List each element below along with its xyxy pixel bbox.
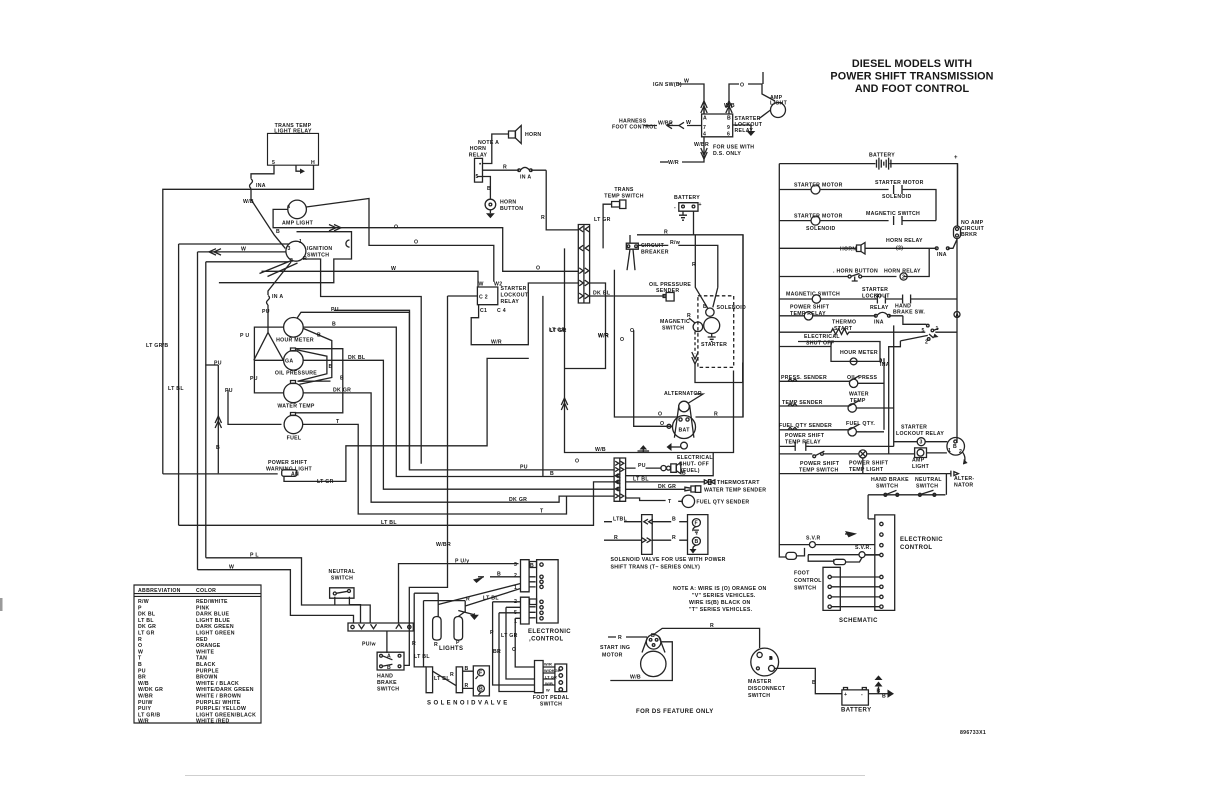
svg-text:DK GR: DK GR	[509, 497, 527, 503]
svg-text:POWER SHIFT: POWER SHIFT	[785, 433, 825, 439]
arrow symbol left of alternator	[667, 443, 672, 451]
svg-text:C 4: C 4	[497, 308, 506, 314]
wire W/B from fuse diagonal to ignition	[243, 189, 285, 249]
svg-text:W: W	[684, 79, 689, 85]
svg-text:PU/w: PU/w	[362, 642, 377, 648]
svg-text:LIGHT BLUE: LIGHT BLUE	[196, 618, 230, 624]
svg-text:B: B	[530, 563, 534, 569]
svg-text:LOCKOUT: LOCKOUT	[501, 293, 529, 299]
svg-text:W: W	[686, 120, 691, 126]
svg-text:BRAKE SW.: BRAKE SW.	[893, 310, 925, 316]
foot control switch box	[794, 567, 880, 610]
ignition switch	[286, 239, 333, 264]
svg-text:B: B	[138, 662, 142, 668]
svg-text:AN: AN	[291, 472, 299, 478]
solenoid valve assembly	[426, 666, 508, 707]
svg-text:SCHEMATIC: SCHEMATIC	[839, 618, 878, 624]
svg-text:F: F	[479, 671, 482, 677]
svg-text:TEMP SWITCH: TEMP SWITCH	[799, 468, 839, 474]
svg-text:BR: BR	[493, 649, 501, 655]
svg-text:+: +	[844, 692, 847, 698]
svg-text:B: B	[769, 656, 773, 662]
svg-text:B: B	[340, 376, 344, 382]
wire amp light right pin to O starter lockout	[306, 199, 494, 282]
svg-text:FOR DS FEATURE ONLY: FOR DS FEATURE ONLY	[636, 709, 714, 715]
svg-text:F: F	[695, 521, 698, 527]
svg-text:WATER TEMP SENDER: WATER TEMP SENDER	[704, 488, 766, 494]
svg-text:LIGHT: LIGHT	[912, 464, 930, 470]
svg-text:P L: P L	[250, 553, 259, 559]
svg-text:P U/y: P U/y	[455, 559, 469, 565]
ignition switch lever diagonals	[260, 261, 298, 277]
electronic control box right	[868, 515, 943, 611]
svg-text:W: W	[479, 282, 484, 288]
svg-text:MASTER: MASTER	[748, 679, 772, 685]
svg-text:R: R	[450, 672, 454, 678]
svg-text:LT BL: LT BL	[414, 654, 430, 660]
svg-text:LT GR: LT GR	[549, 328, 566, 334]
svg-text:MOTOR: MOTOR	[602, 653, 623, 659]
W wire bottom	[198, 564, 354, 623]
ladder left rail	[778, 164, 780, 551]
svg-text:P: P	[456, 640, 460, 646]
dashed wire with arrows	[692, 332, 743, 383]
svg-text:LT BL: LT BL	[483, 596, 499, 602]
svg-text:ELECTRICAL: ELECTRICAL	[677, 455, 713, 461]
svg-text:SWITCH: SWITCH	[377, 687, 399, 693]
svg-text:W/BR: W/BR	[138, 694, 153, 700]
svg-text:WHITE /RED: WHITE /RED	[196, 719, 230, 725]
svg-text:9: 9	[727, 125, 730, 131]
svg-text:LT BL: LT BL	[434, 676, 450, 682]
ladder battery top	[779, 153, 958, 227]
svg-text:ELECTRONIC: ELECTRONIC	[900, 537, 943, 543]
svg-text:(2): (2)	[896, 246, 903, 252]
row temp sender / water temp	[779, 392, 893, 413]
svg-text:R: R	[465, 683, 469, 689]
svg-text:STARTER: STARTER	[501, 286, 527, 292]
svg-text:LT BL: LT BL	[633, 477, 649, 483]
wire relay pin5 to fuse	[251, 165, 274, 179]
svg-text:IN A: IN A	[272, 294, 283, 300]
svg-text:+: +	[954, 155, 958, 161]
svg-text:-: -	[674, 205, 676, 211]
svg-text:W: W	[391, 266, 396, 272]
svg-text:B: B	[682, 470, 686, 476]
connector bar	[348, 623, 413, 631]
no amp circuit breaker	[954, 164, 985, 443]
svg-text:CONTROL: CONTROL	[900, 545, 932, 551]
svg-text:P U: P U	[240, 333, 249, 339]
svg-text:LT BL: LT BL	[381, 520, 397, 526]
svg-text:R/w: R/w	[670, 240, 681, 246]
LT GR vertical from connector row5	[543, 296, 566, 477]
svg-text:HORN: HORN	[500, 200, 516, 206]
row electrical shut off + hour meter box	[779, 334, 890, 368]
amp light ladder	[912, 448, 947, 470]
svg-text:AMP LIGHT: AMP LIGHT	[282, 221, 314, 227]
DK BL to oil pressure sender	[613, 295, 666, 297]
svg-text:,CONTROL: ,CONTROL	[529, 637, 564, 643]
P L wire	[206, 553, 370, 624]
svg-text:T: T	[138, 656, 142, 662]
B wire hour meter to bundle	[303, 322, 613, 477]
svg-text:DARK BLUE: DARK BLUE	[196, 612, 229, 618]
wire R down to connector	[541, 170, 579, 230]
starter lockout relay C2	[477, 282, 528, 315]
trans temp switch	[594, 187, 644, 248]
svg-text:W/R: W/R	[544, 662, 552, 667]
svg-text:RELAY: RELAY	[870, 305, 889, 311]
for use with DS only	[660, 137, 754, 166]
R wire to solenoid	[692, 235, 708, 308]
svg-text:BUTTON: BUTTON	[500, 206, 523, 212]
wire relay pinH left to LT GR/B vertical	[163, 165, 314, 474]
svg-text:INA: INA	[937, 252, 947, 258]
svg-text:NOTE A: WIRE IS (O) ORANGE: NOTE A: WIRE IS (O) ORANGE ON	[673, 586, 767, 592]
svg-text:SOLENOID: SOLENOID	[806, 226, 836, 232]
svg-text:INA: INA	[874, 320, 884, 326]
amp light lamp	[282, 200, 314, 226]
svg-text:HORN: HORN	[840, 247, 856, 253]
svg-text:FUEL QTY SENDER: FUEL QTY SENDER	[779, 423, 832, 429]
svg-text:O: O	[575, 458, 579, 464]
svg-text:START ING: START ING	[600, 645, 630, 651]
svg-text:O: O	[660, 421, 664, 427]
svg-text:BREAKER: BREAKER	[641, 250, 669, 256]
svg-text:DISCONNECT: DISCONNECT	[748, 686, 786, 692]
svg-text:BLACK: BLACK	[196, 662, 216, 668]
svg-text:BATTERY: BATTERY	[869, 153, 895, 159]
scan artifacts	[0, 598, 3, 611]
svg-text:. HORN BUTTON: . HORN BUTTON	[833, 269, 878, 275]
svg-text:3: 3	[514, 562, 517, 568]
svg-text:LT GR: LT GR	[501, 633, 518, 639]
svg-text:1: 1	[514, 585, 517, 591]
svg-text:BR: BR	[138, 675, 146, 681]
row power shift temp switch/light	[779, 450, 958, 477]
svg-text:SOLENOID: SOLENOID	[717, 305, 747, 311]
battery mid	[674, 195, 702, 235]
svg-text:BRAKE: BRAKE	[377, 680, 397, 686]
svg-text:R: R	[466, 596, 470, 602]
svg-text:TEMP RELAY: TEMP RELAY	[785, 440, 821, 446]
svg-text:AMP: AMP	[912, 458, 925, 464]
svg-text:PU/Y: PU/Y	[138, 706, 152, 712]
svg-text:BAT: BAT	[679, 428, 691, 434]
long LT BL wire	[168, 386, 615, 526]
neutral switch wires to connector bar	[334, 597, 336, 605]
ground near lights	[470, 613, 479, 620]
svg-text:R: R	[714, 412, 718, 418]
svg-text:B: B	[465, 666, 469, 672]
svg-text:O: O	[658, 412, 662, 418]
svg-text:R: R	[138, 637, 142, 643]
svg-text:COLOR: COLOR	[196, 588, 216, 594]
svg-text:FOOT PEDAL: FOOT PEDAL	[533, 695, 570, 701]
svg-text:R: R	[672, 535, 676, 541]
svg-text:LT BL: LT BL	[168, 386, 184, 392]
DK GR wire water temp to bundle	[303, 388, 614, 504]
svg-text:STARTER: STARTER	[862, 287, 888, 293]
T fuel qty sender row	[626, 495, 750, 507]
svg-text:+: +	[699, 202, 702, 208]
svg-text:NEUTRAL: NEUTRAL	[915, 477, 942, 483]
svg-text:W: W	[229, 564, 234, 570]
connector strip mid-left	[614, 458, 626, 501]
svg-text:DK BL: DK BL	[593, 291, 611, 297]
svg-text:W/R: W/R	[668, 160, 679, 166]
svg-text:B: B	[727, 116, 731, 122]
svg-text:LIGHT GREEN/BLACK: LIGHT GREEN/BLACK	[196, 712, 256, 718]
ground on W/B wire	[638, 445, 650, 452]
svg-text:LOCKOUT RELAY: LOCKOUT RELAY	[896, 431, 944, 437]
svg-text:7: 7	[703, 125, 706, 131]
svg-text:LT GR: LT GR	[594, 217, 611, 223]
svg-text:O: O	[620, 337, 624, 343]
left verticals	[178, 244, 180, 525]
svg-text:C1: C1	[480, 308, 487, 314]
svg-text:W/B: W/B	[243, 199, 254, 205]
svg-text:PURPLE/ WHITE: PURPLE/ WHITE	[196, 700, 241, 706]
starter mid	[701, 318, 727, 349]
svg-text:MAGNETIC: MAGNETIC	[660, 319, 690, 325]
svg-text:2: 2	[514, 573, 517, 579]
svg-text:HAND: HAND	[377, 674, 393, 680]
svg-text:CONTROL: CONTROL	[794, 578, 822, 584]
svg-text:1: 1	[948, 448, 951, 454]
svg-text:PU: PU	[250, 376, 258, 382]
svg-text:O: O	[512, 647, 516, 653]
note A text	[673, 586, 767, 613]
svg-text:SHUT- OFF: SHUT- OFF	[679, 462, 709, 468]
svg-text:R/W: R/W	[138, 599, 149, 605]
long W wire to starter lockout relay	[262, 266, 479, 288]
W/B wire from connector down	[561, 248, 660, 453]
circuit breaker mid	[626, 235, 668, 270]
amp light top right	[763, 72, 788, 118]
starter dashed box	[698, 296, 734, 368]
O wire mid loop	[334, 310, 410, 470]
DK GR water temp sender row	[626, 484, 767, 494]
svg-text:SHIFT TRANS (T~ SERIES ONLY: SHIFT TRANS (T~ SERIES ONLY)	[611, 565, 701, 571]
row press sender / oil press	[779, 375, 884, 387]
svg-text:RED: RED	[196, 637, 208, 643]
O wire to alternator bat	[630, 328, 673, 428]
svg-text:DK BL: DK BL	[138, 612, 156, 618]
B arrow wire left x218	[205, 365, 221, 473]
svg-text:3: 3	[288, 246, 291, 252]
electronic control connector upper	[514, 560, 537, 592]
DK BL wire oil pressure to bundle	[303, 355, 614, 489]
svg-text:PINK: PINK	[196, 605, 210, 611]
svg-text:4: 4	[703, 132, 706, 138]
svg-text:S.V.R: S.V.R	[806, 536, 821, 542]
horn speaker	[509, 126, 542, 144]
connector C on loop	[346, 240, 350, 247]
oil pressure gauge	[275, 348, 317, 377]
electrical shutoff fuel	[661, 455, 713, 474]
R/w wire	[638, 240, 718, 287]
svg-text:RELAY: RELAY	[469, 153, 488, 159]
svg-text:ABBREVIATION: ABBREVIATION	[138, 588, 181, 594]
DK BL wire connector to oil pressure sender	[590, 291, 614, 297]
alternator mid	[664, 391, 703, 449]
svg-text:1: 1	[299, 239, 302, 245]
svg-text:ORANGE: ORANGE	[196, 643, 221, 649]
oil pressure sender	[649, 282, 691, 301]
svg-text:S O L E N O I D V A L V E: S O L E N O I D V A L V E	[427, 701, 508, 707]
svg-text:R: R	[614, 535, 618, 541]
svg-text:HOUR METER: HOUR METER	[276, 338, 314, 344]
svg-text:AND FOOT CONTROL: AND FOOT CONTROL	[855, 83, 970, 95]
svg-text:T: T	[336, 419, 340, 425]
water temp B link up	[300, 329, 332, 385]
svg-text:NATOR: NATOR	[954, 483, 973, 489]
svg-text:THERMO: THERMO	[832, 320, 856, 326]
svg-text:BROWN: BROWN	[196, 675, 218, 681]
trans temp light relay	[268, 123, 319, 174]
svg-text:STARTER MOTOR: STARTER MOTOR	[875, 180, 924, 186]
svg-text:B: B	[479, 687, 483, 693]
svg-text:FOOT: FOOT	[794, 571, 810, 577]
electronic control connector lower	[514, 597, 543, 625]
svg-text:HORN: HORN	[470, 146, 486, 152]
svg-text:896733X1: 896733X1	[960, 730, 986, 736]
starter lockout relay top	[702, 110, 771, 138]
O wire to alternator top	[614, 270, 679, 418]
svg-text:2: 2	[925, 340, 928, 346]
svg-text:DK GR: DK GR	[138, 624, 156, 630]
row hand brake / neutral switch	[868, 474, 946, 519]
master disconnect switch	[748, 648, 786, 699]
svg-text:B: B	[332, 322, 336, 328]
svg-text:PURPLE/ YELLOW: PURPLE/ YELLOW	[196, 706, 246, 712]
svg-text:SWITCH: SWITCH	[662, 326, 684, 332]
svg-text:LIGHT RELAY: LIGHT RELAY	[274, 129, 312, 135]
hand brake switch	[377, 652, 404, 692]
wire to ignition pin1	[179, 243, 289, 245]
R top wire	[637, 230, 743, 418]
svg-text:BRKR: BRKR	[961, 232, 977, 238]
PU wire to shutoff	[626, 463, 662, 469]
starting motor loop W/B	[610, 642, 672, 681]
svg-text:T: T	[540, 509, 544, 515]
T-series solenoid valve right box	[688, 515, 708, 555]
svg-text:SWITCH: SWITCH	[331, 576, 353, 582]
B wire to battery bottom	[775, 668, 842, 693]
B wire row	[626, 453, 714, 477]
battery bottom	[841, 688, 871, 714]
power shift warning light	[163, 460, 313, 478]
alternator circle right	[947, 438, 975, 489]
R wire starting motor	[608, 635, 647, 641]
svg-text:W: W	[241, 247, 246, 253]
R vertical to solenoid valve	[412, 593, 438, 667]
svg-text:DIESEL MODELS WITH: DIESEL MODELS WITH	[852, 58, 972, 70]
svg-text:W/B: W/B	[630, 675, 641, 681]
row power shift temp relay / hand brake sw	[779, 304, 926, 326]
svg-text:ELECTRONIC: ELECTRONIC	[528, 629, 571, 635]
svg-text:POWER SHIFT: POWER SHIFT	[800, 461, 840, 467]
svg-text:B: B	[812, 680, 816, 686]
svg-text:LT GR: LT GR	[317, 479, 334, 485]
ign sw harness top	[653, 79, 707, 115]
svg-text:ELECTRICAL: ELECTRICAL	[804, 334, 840, 340]
svg-text:"T" SERIES VEHICLES.: "T" SERIES VEHICLES.	[689, 607, 753, 613]
svg-text:POWER SHIFT TRANSMISSION: POWER SHIFT TRANSMISSION	[830, 71, 993, 83]
svg-text:W/DKGR: W/DKGR	[544, 668, 561, 673]
svg-text:WIRE IS(B) BLACK ON: WIRE IS(B) BLACK ON	[689, 600, 751, 606]
horn relay	[469, 146, 488, 182]
wire W to ignition pin3	[198, 247, 286, 256]
svg-text:WHITE / BROWN: WHITE / BROWN	[196, 694, 241, 700]
svg-text:O: O	[394, 225, 398, 231]
lights wires diagonals	[438, 584, 520, 615]
svg-text:IGNITION: IGNITION	[307, 246, 332, 252]
svg-text:SOLENOID: SOLENOID	[882, 194, 912, 200]
svg-text:"V" SERIES VEHICLES.: "V" SERIES VEHICLES.	[692, 593, 756, 599]
T-series solenoid valve R row	[604, 535, 688, 543]
LT BL thermostart row	[626, 477, 761, 486]
svg-text:RED/WHITE: RED/WHITE	[196, 599, 228, 605]
title block	[830, 58, 993, 95]
magnetic switch mid	[660, 313, 703, 332]
svg-text:PU/W: PU/W	[138, 700, 153, 706]
svg-text:POWER SHIFT: POWER SHIFT	[268, 460, 308, 466]
svg-text:RELAY: RELAY	[501, 299, 520, 305]
row starter motor 2	[779, 211, 936, 232]
row thermo start	[779, 320, 956, 335]
svg-text:LTBL: LTBL	[613, 516, 628, 522]
upper connector strip	[578, 225, 589, 304]
svg-text:W: W	[138, 649, 143, 655]
starting motor	[600, 633, 666, 677]
svg-text:5: 5	[272, 160, 275, 166]
svg-text:TAN: TAN	[196, 656, 207, 662]
harness foot control wire	[612, 119, 702, 131]
hour meter	[276, 318, 314, 344]
svg-text:A: A	[703, 116, 707, 122]
svg-text:O: O	[414, 240, 418, 246]
svg-text:TEMP: TEMP	[850, 398, 866, 404]
svg-text:W/BR: W/BR	[436, 542, 451, 548]
svg-text:LT GR: LT GR	[138, 631, 155, 637]
svg-text:WHITE/DARK GREEN: WHITE/DARK GREEN	[196, 687, 254, 693]
svg-text:ALTER-: ALTER-	[954, 476, 974, 482]
svg-text:B: B	[317, 333, 321, 339]
neutral switch	[329, 569, 356, 598]
svg-text:WHITE: WHITE	[196, 649, 214, 655]
svg-text:PRESS. SENDER: PRESS. SENDER	[781, 375, 827, 381]
svg-text:PU: PU	[225, 388, 233, 394]
svg-text:SWITCH: SWITCH	[307, 253, 329, 259]
svg-text:HORN: HORN	[525, 132, 541, 138]
svg-text:R: R	[692, 262, 696, 268]
fuse INA	[250, 179, 266, 189]
svg-text:SWITCH: SWITCH	[794, 586, 816, 592]
T wire fuel to bundle	[303, 419, 567, 515]
svg-text:HORN RELAY: HORN RELAY	[886, 238, 923, 244]
svg-text:T: T	[668, 499, 672, 505]
svg-text:THERMOSTART: THERMOSTART	[717, 480, 760, 486]
wire horn relay R fuse INA	[483, 165, 547, 181]
wire to ignition pin2	[206, 261, 289, 263]
svg-text:5: 5	[922, 328, 925, 334]
svg-text:POWER SHIFT: POWER SHIFT	[849, 461, 889, 467]
svg-text:B: B	[216, 445, 220, 451]
svg-text:B: B	[550, 471, 554, 477]
